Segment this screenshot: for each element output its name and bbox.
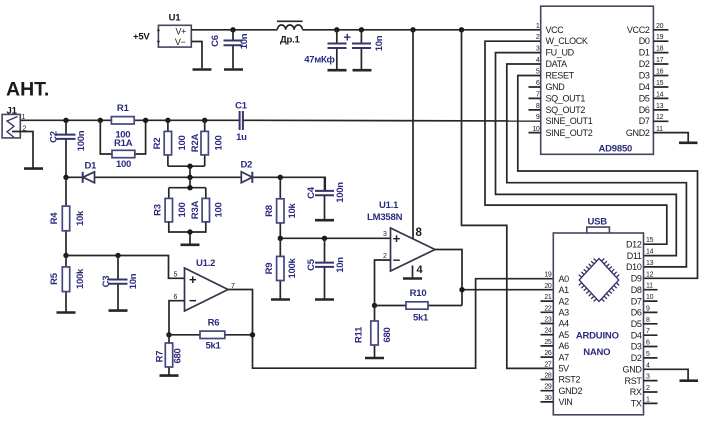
svg-text:TX: TX [631,399,642,409]
wire U1.1 output to A1 [435,250,553,306]
svg-text:12: 12 [646,271,654,278]
pin numbers AD9850 left [532,23,540,133]
ground [57,311,76,314]
resistor R10 [375,288,463,324]
ground [680,379,699,382]
svg-text:C2: C2 [49,131,60,143]
resistor R4 [49,206,86,231]
svg-text:D2: D2 [639,59,650,69]
svg-text:FU_UD: FU_UD [546,48,575,58]
svg-text:100n: 100n [76,130,87,151]
wire RESET bus [518,76,698,279]
svg-text:D0: D0 [639,36,650,46]
svg-text:5k1: 5k1 [206,341,222,352]
svg-text:−: − [189,293,197,308]
svg-text:23: 23 [544,317,552,324]
svg-text:20: 20 [544,283,552,290]
svg-text:SINE_OUT1: SINE_OUT1 [546,116,593,126]
node R4-R5 [63,253,68,258]
capacitor C2 [49,120,88,177]
capacitor C6 [210,30,250,69]
svg-text:2: 2 [646,385,650,392]
svg-text:A0: A0 [559,274,570,284]
wire node to U1.1 +input [280,237,390,239]
svg-text:SQ_OUT2: SQ_OUT2 [546,105,586,115]
svg-text:A5: A5 [559,330,570,340]
svg-text:25: 25 [544,339,552,346]
svg-text:4: 4 [536,57,540,64]
Arduino right pin numbers [646,237,654,403]
ground [315,219,334,222]
svg-text:100: 100 [116,159,131,170]
svg-text:D10: D10 [626,262,642,272]
svg-text:−: − [393,252,401,267]
ground [109,309,128,312]
node main-R1 left [98,118,103,123]
wire rail middle [303,29,541,31]
svg-text:100k: 100k [287,258,298,279]
svg-text:5k1: 5k1 [413,313,429,324]
node rail-C6 [230,27,235,32]
svg-text:R11: R11 [354,326,365,343]
resistor R2A [190,120,225,166]
resistor R1 [111,103,134,140]
svg-text:14: 14 [646,249,654,256]
svg-text:D7: D7 [639,116,650,126]
op-amp U1.2 [174,258,236,311]
wire Arduino GND to ground [644,369,689,379]
svg-text:NANO: NANO [583,347,610,358]
node main-R2 [165,118,170,123]
svg-text:VIN: VIN [559,397,573,407]
svg-text:A4: A4 [559,319,570,329]
svg-text:+: + [189,272,197,287]
ground [193,68,212,71]
svg-text:A7: A7 [559,352,570,362]
svg-text:R3: R3 [153,204,164,216]
svg-text:D2: D2 [631,353,642,363]
resistor R11 [354,306,394,358]
wire DATA bus [507,64,687,267]
svg-text:+: + [344,30,352,45]
svg-text:D4: D4 [639,82,650,92]
mcu diamond icon [579,259,619,302]
capacitor C5 [306,238,346,298]
svg-text:680: 680 [173,349,184,364]
wire R2/R2A join to node [168,166,205,177]
node diode row centre [187,175,192,180]
svg-text:C5: C5 [306,258,317,271]
node R3 bottom [187,229,192,234]
svg-text:D5: D5 [631,319,642,329]
svg-text:GND: GND [623,365,643,375]
svg-text:R1A: R1A [114,138,133,149]
svg-text:U1: U1 [169,13,182,24]
wire diode row [66,177,325,190]
resistor R1A parallel [100,120,145,170]
svg-text:8: 8 [646,317,650,324]
svg-text:DATA: DATA [546,59,568,69]
svg-text:10n: 10n [128,273,139,289]
wire U1.1 -input [375,260,391,306]
svg-text:ARDUINO: ARDUINO [576,331,619,342]
svg-text:13: 13 [656,103,664,110]
svg-text:RST2: RST2 [559,375,581,385]
svg-text:26: 26 [544,350,552,357]
svg-text:W_CLOCK: W_CLOCK [546,36,588,46]
svg-text:15: 15 [646,237,654,244]
wire 5V feed [462,30,554,369]
resistor R3A [190,198,225,222]
svg-text:GND2: GND2 [559,386,583,396]
node R3 top [187,185,192,190]
ground [271,298,290,301]
svg-text:8: 8 [416,227,423,239]
node main-R1 right [143,118,148,123]
svg-text:D3: D3 [639,71,650,81]
ground [224,68,243,71]
svg-text:10k: 10k [75,210,86,226]
svg-text:29: 29 [544,384,552,391]
svg-text:D1: D1 [639,48,650,58]
svg-text:28: 28 [544,373,552,380]
svg-text:1u: 1u [236,132,247,143]
svg-text:5V: 5V [559,364,570,374]
svg-text:D8: D8 [631,285,642,295]
node U1.2 out R6 [250,332,255,337]
svg-text:R2A: R2A [190,133,201,152]
diode D2 [241,160,253,183]
svg-text:R5: R5 [49,272,60,285]
svg-text:17: 17 [656,57,664,64]
capacitor C3 [101,256,139,310]
svg-text:14: 14 [656,91,664,98]
capacitor C4 [306,177,346,219]
op-amp U1.1 [367,200,435,271]
wire R4 column [65,177,67,255]
svg-text:30: 30 [544,395,552,402]
node diode row R8 [278,175,283,180]
svg-text:5: 5 [174,272,178,279]
wire GND2 to ground [653,133,688,142]
svg-text:U1.2: U1.2 [196,258,215,269]
svg-text:D11: D11 [627,251,642,261]
svg-text:3: 3 [536,46,540,53]
svg-text:D3: D3 [631,342,642,352]
svg-text:АНТ.: АНТ. [6,79,49,101]
svg-text:U1.1: U1.1 [379,200,399,211]
svg-text:A1: A1 [559,285,570,295]
svg-text:100: 100 [177,203,188,218]
node rail-C7 [334,27,339,32]
svg-text:2: 2 [536,34,540,41]
svg-text:5: 5 [536,69,540,76]
svg-text:RESET: RESET [546,71,575,81]
svg-text:15: 15 [656,80,664,87]
inductor Dr.1 [277,21,303,45]
ground [24,167,43,170]
svg-text:13: 13 [646,260,654,267]
svg-text:C1: C1 [235,101,248,112]
svg-text:R2: R2 [152,138,163,150]
svg-text:3: 3 [646,374,650,381]
resistor R8 [264,177,298,238]
Arduino left stub pins A2-A7,RST2,GND2,VIN [541,301,554,402]
ground [403,277,422,280]
resistor R3 [153,198,189,222]
wire U1.1 pin8 to rail [412,30,414,239]
node rail-U1.1 pin8 [410,27,415,32]
wire V- to ground [191,42,202,69]
svg-text:SQ_OUT1: SQ_OUT1 [546,93,586,103]
svg-text:R7: R7 [155,351,166,363]
resistor R7 [155,335,184,375]
svg-text:R6: R6 [208,318,220,329]
svg-text:19: 19 [544,272,552,279]
wire node to U1.2 +input [66,256,185,279]
wire +5V rail left [191,29,277,31]
wire W_CLOCK bus [485,41,667,244]
svg-text:A6: A6 [559,341,570,351]
svg-text:RX: RX [630,387,642,397]
svg-text:27: 27 [544,361,552,368]
wire C1 to AD9850 SINE_OUT1 [244,119,541,122]
svg-text:D5: D5 [639,93,650,103]
AD9850 left stub pins 6,7,8,10 [529,87,541,133]
svg-text:9: 9 [646,305,650,312]
svg-text:R10: R10 [410,288,427,299]
node C3 [115,253,120,258]
svg-text:100n: 100n [335,182,346,203]
resistor R5 [49,256,86,312]
svg-text:VCC: VCC [546,25,565,35]
node R10-R11 [372,303,377,308]
svg-text:10n: 10n [335,257,346,273]
svg-text:1: 1 [646,396,650,403]
svg-text:D2: D2 [241,160,253,171]
svg-text:R4: R4 [49,212,60,225]
svg-text:19: 19 [656,34,664,41]
pin numbers AD9850 right [656,23,664,133]
IC Arduino Nano [553,216,643,414]
resistor R3 parallel pair top join [169,177,206,198]
svg-text:10n: 10n [239,33,250,49]
svg-text:R3A: R3A [190,200,201,219]
svg-text:47мКф: 47мКф [304,55,334,66]
diode D1 [83,161,97,183]
svg-text:100: 100 [214,203,225,218]
resistor R9 [264,238,298,298]
svg-text:A3: A3 [559,308,570,318]
svg-text:22: 22 [544,305,552,312]
capacitor C1 [235,101,248,143]
svg-text:24: 24 [544,328,552,335]
svg-text:VCC2: VCC2 [627,25,650,35]
svg-text:100: 100 [214,136,225,151]
svg-text:USB: USB [588,216,608,227]
svg-text:D6: D6 [631,308,642,318]
svg-text:10k: 10k [287,203,298,219]
svg-text:680: 680 [382,328,393,343]
wire U1.2 -input [169,301,185,335]
IC AD9850 [541,6,654,154]
svg-text:100: 100 [177,136,188,151]
svg-text:3: 3 [383,231,387,238]
svg-text:GND: GND [546,82,566,92]
svg-text:18: 18 [656,46,664,53]
svg-text:21: 21 [544,294,552,301]
wire U1.1 pin4 to ground [412,266,414,278]
svg-text:11: 11 [646,283,653,290]
wire main top [20,119,239,121]
svg-text:12: 12 [656,114,664,121]
Arduino left pin names [559,274,583,407]
svg-text:AD9850: AD9850 [598,144,632,155]
svg-text:V−: V− [175,37,186,47]
svg-text:RST: RST [625,376,643,386]
capacitor 10n rail [352,30,385,70]
node main-C2 [63,118,68,123]
svg-text:D6: D6 [639,105,650,115]
svg-text:GND2: GND2 [626,128,650,138]
svg-text:C4: C4 [306,186,317,199]
svg-text:D9: D9 [631,274,642,284]
node R8-R9 [278,236,283,241]
wire R3 pair bottom to ground [169,222,206,244]
resistor R2 [152,120,188,166]
svg-text:10n: 10n [374,35,385,51]
node R6-R7 [166,332,171,337]
Arduino right stub pins D8-D2,RST,RX,TX [644,290,658,404]
svg-text:D12: D12 [626,239,642,249]
svg-text:6: 6 [536,80,540,87]
svg-text:4: 4 [417,264,424,276]
svg-text:7: 7 [536,91,540,98]
resistor R6 [169,318,253,352]
svg-text:1: 1 [536,23,540,30]
svg-text:D7: D7 [631,296,642,306]
wire U1.2 output to A0 [228,279,553,369]
AD9850 right stub pins [653,30,668,122]
ground [160,374,179,377]
capacitor 47uF electrolytic [304,30,351,70]
svg-text:R9: R9 [264,263,275,275]
regulator U1 [157,13,191,48]
svg-text:4: 4 [646,362,650,369]
node rail-C8 [359,27,364,32]
svg-text:R1: R1 [117,103,130,114]
connector J1 [2,106,26,138]
svg-text:6: 6 [646,340,650,347]
node rail-5V feed [459,27,464,32]
svg-text:16: 16 [656,69,664,76]
svg-text:C3: C3 [101,276,112,288]
svg-text:D1: D1 [85,161,98,172]
Arduino right pin names [623,239,643,408]
svg-text:7: 7 [646,328,650,335]
svg-text:D4: D4 [631,330,642,340]
node main-R2A [202,118,207,123]
Arduino left pin numbers [544,272,552,402]
svg-text:+: + [393,231,401,246]
svg-text:10: 10 [646,294,654,301]
node R2 join [187,164,192,169]
ground [328,69,347,72]
svg-text:9: 9 [536,114,540,121]
svg-text:+5V: +5V [133,32,150,43]
node C5 [322,236,327,241]
ground [365,357,384,360]
node U1.1 out A1 [459,287,464,292]
svg-text:Др.1: Др.1 [280,34,301,45]
wire J1 pin2 to ground [12,132,33,168]
svg-text:C6: C6 [210,35,221,47]
svg-text:R8: R8 [264,205,275,217]
svg-text:5: 5 [646,351,650,358]
svg-text:2: 2 [383,253,387,260]
svg-text:LM358N: LM358N [367,212,403,223]
ground [181,244,200,247]
ground [679,142,698,145]
node C2-D1 [63,175,68,180]
ground [353,69,372,72]
wire FU_UD bus [496,53,677,256]
svg-text:SINE_OUT2: SINE_OUT2 [546,128,593,138]
svg-text:20: 20 [656,23,664,30]
svg-text:100k: 100k [75,268,86,289]
svg-text:V+: V+ [175,26,186,36]
svg-text:A2: A2 [559,296,570,306]
svg-text:8: 8 [536,103,540,110]
ground [315,298,334,301]
